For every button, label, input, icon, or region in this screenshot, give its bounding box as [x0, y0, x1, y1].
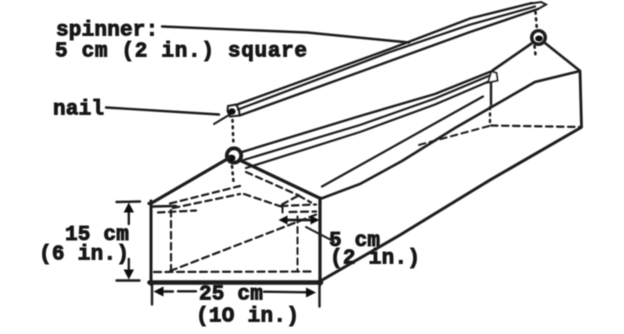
- dotted nail axis below far circle: [535, 46, 536, 55]
- hidden left-bottom edge dashed: [415, 126, 489, 146]
- 25 cm right arrow: [264, 291, 308, 294]
- hidden right wall inner vertical dashed: [297, 217, 299, 271]
- hidden inner gable right roof dashed: [246, 172, 299, 196]
- hidden left wall inner vertical dashed: [170, 210, 172, 271]
- nail head circle at far gable peak: [532, 31, 546, 45]
- 25 cm dimension left tick: [151, 282, 153, 305]
- front face: left wall top stub solid: [152, 205, 177, 208]
- 15 cm dimension up arrow: [128, 206, 130, 224]
- 15 cm dimension top tick: [117, 200, 141, 203]
- hidden right wall thickness tick: [282, 207, 284, 213]
- hidden line to right shoulder dashed: [244, 194, 281, 207]
- front face right vertical edge: [318, 198, 321, 285]
- nail head shading far: [535, 36, 543, 42]
- dotted nail axis above far circle: [536, 12, 538, 31]
- front gable right roof edge: [241, 161, 321, 199]
- hidden right wall inner top dashed: [290, 210, 317, 213]
- left wall far end cap: [488, 72, 498, 83]
- svg-text:nail: nail: [53, 99, 104, 122]
- far face hidden bottom edge dashed: [491, 126, 581, 128]
- trough inner V edge: [322, 97, 483, 187]
- hidden inner apex dashed left: [282, 196, 299, 205]
- hidden right wall top dashed: [281, 205, 316, 207]
- leader line from 5 cm arrow to label: [306, 227, 334, 242]
- svg-text:(6 in.): (6 in.): [39, 244, 129, 267]
- far face left vertical edge: [490, 75, 492, 105]
- spinner bar bottom edge: [240, 9, 539, 116]
- svg-text:25 cm: 25 cm: [199, 284, 263, 307]
- far face right vertical edge: [580, 71, 582, 127]
- left wall top outer edge: [242, 72, 491, 153]
- 5 cm dimension arrow (double headed): [283, 219, 315, 222]
- 15 cm dimension down arrow: [128, 259, 130, 276]
- leader line from spinner label to spinner bar: [162, 27, 409, 43]
- nail head shading front: [228, 155, 236, 162]
- leader line from nail label to nail: [106, 108, 219, 115]
- far gable left roof edge: [493, 44, 532, 71]
- far face left edge hidden dotted part: [489, 107, 491, 123]
- spinner bar mid edge: [238, 7, 535, 110]
- front gable left roof edge: [149, 158, 229, 204]
- nail head on spinner left end (filled): [228, 108, 235, 114]
- 25 cm dimension right tick: [318, 280, 320, 307]
- front face bottom edge: [150, 280, 322, 285]
- nail head circle at front gable peak: [227, 148, 241, 162]
- 15 cm dimension bottom tick: [117, 279, 140, 281]
- svg-text:(2 in.): (2 in.): [330, 248, 420, 271]
- far gable right roof edge: [545, 43, 580, 71]
- 25 cm left arrow: [154, 287, 164, 297]
- svg-text:spinner:: spinner:: [56, 20, 158, 43]
- hidden short dashed line near left edge: [158, 211, 196, 213]
- spinner bar top edge: [236, 3, 532, 105]
- dotted nail axis above front circle: [233, 120, 234, 146]
- spinner bar left end cap: [228, 105, 240, 117]
- spinner bar right end tip: [531, 2, 546, 9]
- left wall top inner edge: [244, 75, 492, 160]
- left wall inner surface top line: [246, 82, 488, 168]
- dotted nail axis below front circle: [232, 166, 234, 182]
- front face left vertical edge: [150, 201, 153, 285]
- trough bottom front edge: [321, 128, 582, 282]
- right wall top edge: [320, 72, 578, 200]
- svg-text:(1O in.): (1O in.): [196, 306, 299, 329]
- hidden inner apex dashed right: [299, 196, 312, 203]
- hidden floor line dashed: [154, 270, 311, 273]
- hidden inner gable left roof dashed lower: [173, 194, 240, 208]
- hidden sloped floor diagonal dashed: [170, 214, 319, 272]
- leader tip flick under spinner end: [214, 112, 234, 124]
- hidden inner gable left roof dashed upper: [170, 186, 240, 204]
- svg-text:5 cm (2 in.) square: 5 cm (2 in.) square: [55, 41, 308, 64]
